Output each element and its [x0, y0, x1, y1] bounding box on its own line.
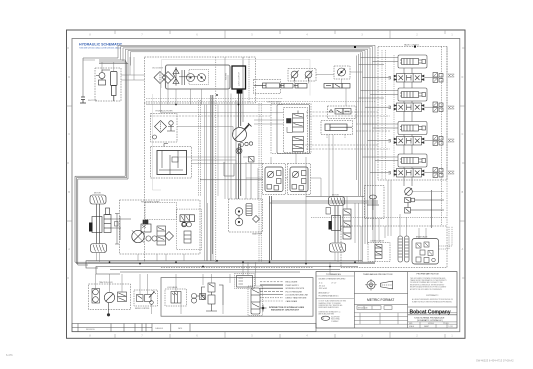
- enclosure: main pump top-center: [334, 66, 350, 79]
- case drain dotted verticals: [249, 57, 261, 262]
- pilot hose web between center and valve bank: [302, 112, 390, 149]
- relief valve row 1 below bank: [405, 198, 445, 203]
- svg-text:.X ±1: .X ±1: [319, 283, 323, 285]
- bucket positioning valve body: [329, 109, 351, 115]
- feed stubs from riser bundle to valve rows: [363, 62, 399, 173]
- copyright sub lines: [412, 298, 454, 303]
- left track: axle shaft: [97, 204, 100, 244]
- reservoir tank body: [157, 151, 187, 175]
- valve bank inner dotted columns: [382, 50, 394, 180]
- dashed pilot lines along bottom of cooler group: [146, 99, 376, 102]
- svg-text:BRAKE VALVE: BRAKE VALVE: [416, 236, 428, 239]
- legend line sample: pilot pressure: [260, 291, 303, 293]
- right track: lower tire: [330, 243, 346, 252]
- svg-text:METRIC FORMAT: METRIC FORMAT: [367, 298, 394, 302]
- long dashed enclosure line above legend: [161, 266, 313, 268]
- svg-text:ANGULAR ±1°: ANGULAR ±1°: [319, 292, 330, 295]
- svg-text:PUMP SUPPLY: PUMP SUPPLY: [286, 285, 300, 287]
- valve bank inner dashed column: [441, 47, 443, 226]
- lift cylinder body: [254, 83, 280, 88]
- enclosure dashed small around interlock: [235, 274, 263, 316]
- svg-text:HYDROSTATIC PUMP: HYDROSTATIC PUMP: [141, 201, 160, 204]
- brake pedal cluster inside legend panel: [201, 283, 223, 311]
- border zone tick marks bottom: [115, 332, 445, 339]
- revision strip band: [72, 324, 316, 332]
- scale cells row: [357, 306, 392, 310]
- svg-text:6570109: 6570109: [428, 323, 434, 325]
- U-step wire left of hand pump: [224, 162, 234, 176]
- left track: drive motor spool: [104, 208, 111, 233]
- relief valve row 2 below bank: [405, 190, 445, 228]
- aux directional control valve: [389, 136, 444, 146]
- border zone tick marks top: [115, 30, 445, 39]
- svg-text:SERVO CONTROL: SERVO CONTROL: [135, 308, 150, 310]
- lock valve spool: [171, 292, 181, 304]
- tilt coupler: [448, 74, 454, 77]
- bobcat row divider: [408, 306, 457, 308]
- enclosure: pilot valve stack center-left: [284, 108, 308, 153]
- enclosure: right pilot supply block: [288, 164, 311, 195]
- pilot valve lower spool: [293, 137, 304, 152]
- fan motor control enclosure (inner dashed): [189, 70, 209, 85]
- gear pump upper circle: [235, 208, 243, 216]
- svg-text:HYDRAULIC SCHEMATIC: HYDRAULIC SCHEMATIC: [79, 43, 123, 47]
- bundle junction dots: [354, 46, 416, 48]
- tilt spool pilot box: [398, 55, 427, 68]
- fan motor second circle: [198, 74, 206, 82]
- travel motor right: [305, 71, 313, 82]
- interlock valve column inside legend panel: [237, 276, 261, 315]
- junction dots on bus: [109, 94, 356, 267]
- dashed vertical pair left of center: [199, 100, 201, 196]
- tolerances divider: [316, 297, 354, 299]
- light gray echo enclosure around cooler: [153, 60, 311, 191]
- left track: lower tire: [91, 244, 107, 253]
- small oval company logo: [321, 316, 329, 320]
- legend line sample: pump supply: [260, 285, 300, 287]
- enclosure: pump inner sub-boxes: [145, 202, 201, 249]
- tandem pump left port lines: [111, 214, 131, 245]
- fan drive valve and motor: [96, 70, 110, 85]
- svg-text:QUICK COUPLER: QUICK COUPLER: [239, 71, 241, 86]
- pilot valve side port lines: [287, 127, 293, 133]
- title number row cells: [408, 322, 457, 325]
- right track: drive motor spool: [343, 209, 351, 239]
- svg-text:(COOLER) RETURN LINE: (COOLER) RETURN LINE: [286, 295, 309, 297]
- sheet outer border frame: [67, 30, 466, 338]
- filter bypass diamond 1: [154, 72, 166, 84]
- lift coupler: [448, 106, 454, 109]
- svg-text:VALVE, CONTROL: VALVE, CONTROL: [404, 44, 419, 47]
- border zone tick marks left: [67, 48, 73, 278]
- pendulum line with junction ball: [107, 303, 110, 316]
- projection cone symbol: [381, 281, 393, 289]
- svg-text:INDICATED BY JUNCTION DOT: INDICATED BY JUNCTION DOT: [271, 309, 300, 312]
- enclosure: reservoir: [151, 147, 192, 179]
- logo side text: [331, 316, 340, 322]
- main pump circle: [338, 68, 346, 76]
- lockout pump circle: [104, 292, 114, 302]
- fan blades: [173, 67, 179, 86]
- svg-text:.X° ±1°: .X° ±1°: [331, 283, 337, 285]
- title block column dividers: [354, 272, 407, 328]
- tolerances header underline: [316, 275, 354, 277]
- svg-text:PROPRIETARY NOTICE: PROPRIETARY NOTICE: [417, 273, 440, 276]
- lockout valve small: [118, 292, 127, 302]
- gear pump accumulator coil: [246, 204, 252, 216]
- wire bundle A: supply lines across top turning down at right: [118, 45, 375, 262]
- svg-text:WORKING CIRCUITS: WORKING CIRCUITS: [286, 288, 305, 290]
- drawing title text (blue): [79, 43, 123, 50]
- legend line sample: working circuits: [260, 288, 305, 290]
- reservoir breather: [164, 144, 168, 147]
- wire bundle B: left riser staircase to bottom bus: [75, 58, 128, 265]
- lockout solenoid circles: [92, 289, 100, 304]
- svg-text:SW-46523 6-434-4713 07-08-A2: SW-46523 6-434-4713 07-08-A2: [476, 359, 514, 363]
- svg-text:GEAR PUMP: GEAR PUMP: [252, 233, 263, 236]
- reservoir internals: [159, 151, 183, 175]
- fan motor circle with drain: [187, 74, 195, 82]
- filter bypass diamond 2: [162, 72, 174, 84]
- bottom row cells: [409, 324, 453, 328]
- enclosure: lower-right brake circuit boundary: [341, 226, 447, 268]
- svg-text:TOLERANCES: TOLERANCES: [326, 273, 341, 276]
- svg-text:RECEIVER IN CONFIDENCE. THE RE: RECEIVER IN CONFIDENCE. THE RECEIVER BY: [410, 284, 444, 286]
- enclosure: legend panel box: [161, 278, 313, 317]
- svg-text:REVISION: REVISION: [86, 329, 95, 331]
- pilot feed horizontal at 180: [200, 179, 263, 181]
- web risers lower right cluster: [343, 180, 426, 262]
- manifold block (bold): [232, 66, 246, 89]
- pilot valve solid housing: [277, 105, 310, 154]
- svg-text:CONTROL VALVE: CONTROL VALVE: [370, 240, 385, 243]
- valve bank interconnecting drops: [404, 68, 412, 186]
- svg-text:.XXX ±0.05: .XXX ±0.05: [319, 288, 328, 290]
- oil cooler fan shroud box: [166, 65, 231, 89]
- title block outline: [316, 272, 457, 328]
- legend line sample: case drain: [260, 300, 298, 303]
- filter element diamond: [155, 121, 167, 133]
- brake manifold dotted links: [439, 226, 453, 249]
- bobcat row lower divider: [408, 314, 457, 316]
- svg-text:SW 46°1108: SW 46°1108: [358, 308, 367, 310]
- pilot valve upper spool: [293, 111, 304, 133]
- svg-text:RETURN: RETURN: [226, 72, 228, 80]
- enclosure: seat bar lockout cluster bottom-left: [89, 284, 131, 310]
- enclosure: control valve small: [368, 243, 390, 262]
- left track: upper tire: [90, 195, 106, 204]
- enclosure: pilot valve outer dashed box: [271, 104, 311, 154]
- center vertical bus (double line): [211, 95, 213, 261]
- svg-text:THIRD ANGLE PROJECTION: THIRD ANGLE PROJECTION: [363, 273, 393, 276]
- bus riser left corners: [86, 261, 120, 274]
- extra center thin risers: [205, 105, 207, 261]
- gear pump lower circle: [235, 215, 243, 226]
- pump aux dark spool valve: [180, 215, 195, 226]
- tilt cylinders pair below motors: [280, 84, 307, 89]
- aux spool pilot box: [398, 122, 427, 135]
- tilt directional control valve: [389, 73, 444, 83]
- hand pump circle with lever: [233, 123, 252, 142]
- quick coupler below manifold: [237, 90, 242, 93]
- enclosure: gear pump group: [229, 199, 263, 232]
- aux coupler: [448, 139, 454, 142]
- pressure gauge under hand pump: [236, 148, 242, 154]
- svg-text:.XX ±0.5: .XX ±0.5: [319, 285, 326, 287]
- charge pump circles: [146, 236, 157, 241]
- enclosure: lift cylinder right of manifold: [254, 80, 281, 94]
- svg-text:PILOT PRESSURE: PILOT PRESSURE: [286, 291, 303, 293]
- small relief valve near gauge: [249, 157, 255, 163]
- svg-text:SUCTION: SUCTION: [88, 100, 98, 102]
- tolerances note paragraph: [319, 300, 347, 316]
- machine enclosure long dashed boundary left: [144, 103, 146, 262]
- drops from track and pump to bus: [97, 196, 339, 274]
- drop wires from cooler row down: [161, 84, 214, 261]
- legend line sample: direct tank return: [260, 297, 307, 300]
- svg-text:OIL COOLER: OIL COOLER: [152, 68, 164, 70]
- svg-text:SHEET: SHEET: [424, 326, 429, 328]
- enclosure: loader control valve bank (right): [378, 47, 447, 181]
- svg-text:INTERSECTION OF HYDRAULIC LINE: INTERSECTION OF HYDRAULIC LINES: [269, 306, 305, 309]
- valve row below main pump: [324, 84, 350, 89]
- right track: speed sensor box: [326, 208, 331, 215]
- cylinder drop wires center-right: [295, 72, 363, 197]
- fan shaft line: [179, 76, 197, 78]
- left pilot supply rounded body: [265, 167, 283, 192]
- lift spool pilot box: [398, 88, 427, 101]
- main piston pump circle: [132, 230, 144, 242]
- vertical thick wires through hand pump: [239, 94, 241, 200]
- center dotted vertical line: [215, 57, 217, 262]
- right pilot supply rounded body: [290, 167, 308, 192]
- svg-text:T2566 SCHEMA, HYDRAULIQUE: T2566 SCHEMA, HYDRAULIQUE: [414, 316, 445, 319]
- svg-text:ENCLOSURE: ENCLOSURE: [286, 282, 299, 284]
- legend junction dot note text: [269, 306, 305, 312]
- svg-text:TRACTION LOCK: TRACTION LOCK: [99, 281, 114, 284]
- pump control spool stack: [157, 226, 166, 245]
- border zone letters right: [462, 77, 464, 251]
- border zone letters left: [68, 77, 70, 251]
- svg-text:1 OF 1: 1 OF 1: [449, 326, 454, 328]
- control valve spool: [375, 245, 382, 259]
- enclosure: hydraulic filter: [151, 114, 178, 143]
- second aux spool pilot box: [398, 154, 427, 167]
- svg-text:Bobcat Company: Bobcat Company: [410, 309, 451, 315]
- filter gauge: [153, 135, 157, 139]
- right-center vertical bus pair: [270, 196, 272, 262]
- enclosure: left pilot supply block: [263, 164, 286, 195]
- center web risers between bus and mid clusters: [208, 57, 322, 261]
- svg-text:CASE DRAIN: CASE DRAIN: [286, 300, 298, 303]
- svg-text:COPYRIGHT ©: COPYRIGHT ©: [426, 294, 439, 297]
- horizontal feed lines to right cluster: [270, 197, 379, 204]
- pump gerotor circles: [182, 222, 192, 227]
- pump filter diamond: [165, 232, 174, 241]
- right track: axle shaft: [335, 206, 338, 243]
- steering pedal valves: [137, 295, 152, 302]
- hand pump check circles: [240, 142, 253, 147]
- border zone tick marks right: [460, 48, 465, 278]
- enclosure: travel motors pair: [288, 69, 316, 82]
- pilot valve upper solenoid: [287, 119, 292, 124]
- enclosure: tandem piston pump group: [120, 200, 201, 254]
- lift cylinder mid body: [325, 124, 352, 131]
- thin wires near hand pump: [236, 57, 251, 199]
- long dotted pilot line across lower right: [311, 217, 447, 219]
- steering pedal lever: [149, 291, 156, 305]
- accumulator cylinder 2: [405, 236, 410, 262]
- svg-text:LOCK VALVE: LOCK VALVE: [167, 286, 178, 289]
- metric lower divider: [354, 304, 407, 306]
- border zone numbers bottom: [89, 335, 453, 337]
- right track: gearbox housing: [332, 216, 341, 231]
- svg-text:MOTOR: MOTOR: [94, 193, 101, 195]
- cylinder port dashes: [327, 135, 345, 139]
- lift directional control valve: [389, 102, 444, 112]
- aux motor circle below bank: [405, 188, 413, 196]
- svg-text:(SCHEMATIC, HYDRAULIC): (SCHEMATIC, HYDRAULIC): [417, 319, 443, 322]
- svg-text:CONTROL VALVE: CONTROL VALVE: [267, 100, 282, 103]
- travel motor left: [291, 71, 299, 82]
- proprietary paragraph: [410, 277, 447, 291]
- projection target symbol: [365, 279, 377, 291]
- enclosure: brake shuttle box upper-right of tracks: [365, 186, 385, 219]
- enclosure: hydraulic lock valve cluster: [165, 289, 187, 306]
- left pilot pump circle: [267, 171, 281, 191]
- right track: brake dark block: [329, 221, 332, 230]
- extra bundle-to-bank stubs: [359, 58, 399, 158]
- legend line sample: enclosure: [260, 282, 298, 284]
- revision strip text: [86, 327, 182, 331]
- legend line sample: cooler return: [260, 295, 309, 297]
- left track: brake block (dark): [89, 223, 93, 232]
- filter bypass check: [167, 121, 175, 131]
- lower table rows: [354, 313, 457, 324]
- suction strainer symbol bottom-left: [80, 97, 98, 103]
- pump relief spool: [184, 231, 191, 243]
- svg-text:PLUS/MINUS RADIUS 0.5: PLUS/MINUS RADIUS 0.5: [319, 294, 339, 297]
- gear pump filter diamond: [253, 216, 260, 223]
- enclosure: fan drive cluster top-left: [95, 68, 121, 101]
- right pilot pump circle: [292, 171, 306, 191]
- svg-text:SIZE: SIZE: [409, 323, 412, 325]
- fan drive accumulator cylinder: [111, 72, 118, 102]
- svg-text:HYDRAULIC FILTER: HYDRAULIC FILTER: [156, 110, 174, 113]
- enclosure: lift cylinder mid: [321, 121, 353, 135]
- gear symbol circles right of lock valve: [191, 293, 205, 303]
- pump servo block: [141, 220, 151, 232]
- legend junction dot note symbol: [260, 305, 267, 312]
- dashed pilot line mid-left: [150, 115, 271, 117]
- border zone numbers top: [89, 35, 453, 37]
- bottom main bus horizontal lines: [88, 261, 375, 272]
- cooler core zigzag: [182, 70, 185, 85]
- upper-left web around fan cluster: [83, 57, 145, 103]
- svg-text:DIRECT TANK RETURN: DIRECT TANK RETURN: [286, 297, 307, 300]
- svg-text:6-47b: 6-47b: [6, 353, 13, 357]
- right track: upper tire: [329, 197, 345, 206]
- enclosure: bucket positioning valve top-center: [328, 106, 357, 119]
- metric divider: [354, 293, 407, 295]
- valve bank right dotted rail: [446, 47, 448, 226]
- enclosure: steering pedal cluster: [134, 290, 158, 306]
- svg-text:EQUIPMENT: EQUIPMENT: [331, 316, 340, 318]
- brake shuttle ellipse: [367, 195, 379, 210]
- accumulator cylinder 1: [398, 236, 403, 262]
- svg-text:UNLESS OTHERWISE SPECIFIED: UNLESS OTHERWISE SPECIFIED: [319, 278, 347, 280]
- wire bundle A right fan-down verticals: [357, 53, 361, 197]
- second aux coupler: [448, 171, 454, 174]
- tolerances body text: [319, 278, 347, 297]
- web drops from bus into bottom clusters: [96, 262, 256, 314]
- enclosure: brake manifold rounded: [412, 239, 439, 265]
- second aux directional control valve: [389, 168, 444, 178]
- left track: gearbox housing: [92, 217, 102, 233]
- extra light web lines: [177, 105, 444, 197]
- sheet inner border frame: [72, 39, 460, 332]
- return line web top center: [146, 105, 283, 200]
- brake manifold internals: [416, 242, 435, 263]
- enclosure: oil cooler group: [145, 57, 256, 103]
